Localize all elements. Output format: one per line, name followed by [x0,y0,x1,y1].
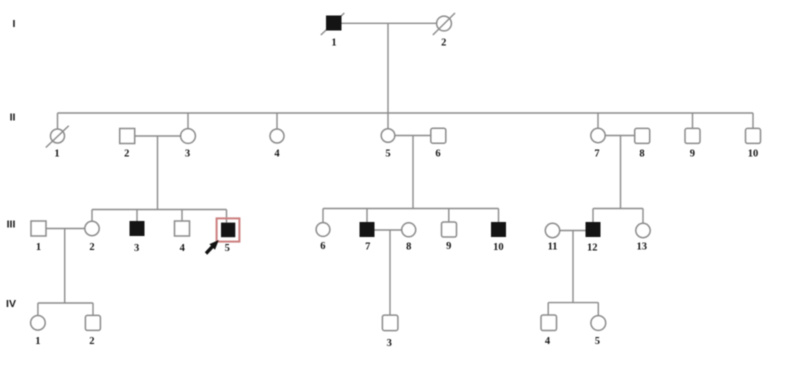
svg-text:11: 11 [548,242,558,253]
individual III-10 affected male [491,222,506,237]
svg-text:5: 5 [385,148,390,159]
individual III-7 affected male [360,222,375,237]
individual II-1 deceased female [46,126,69,148]
svg-text:2: 2 [89,336,94,347]
proband arrow [205,240,219,255]
svg-text:5: 5 [225,243,230,254]
drop line to IV-4 [547,303,549,315]
svg-text:6: 6 [435,148,440,159]
svg-text:4: 4 [274,149,280,160]
descent line from II-5/II-6 to middle III sibship [412,136,414,209]
right generation III sibship line [593,208,643,210]
marriage line III-11 to III-12 [560,230,586,232]
marriage line III-7 to III-8 [375,229,402,231]
individual II-9 male [685,128,700,143]
drop line to III-9 [448,209,450,223]
svg-text:9: 9 [690,149,695,160]
drop line to II-9 [692,113,694,129]
descent line from III-11/III-12 to right IV sibship [572,231,574,303]
svg-text:3: 3 [387,338,392,349]
svg-text:2: 2 [124,148,129,159]
individual III-1 male [31,221,46,236]
generation II sibship line [58,112,754,114]
drop line to IV-5 [597,303,599,316]
individual I-2 deceased female [433,13,455,35]
svg-text:10: 10 [493,242,504,253]
drop line to II-3 [187,113,189,129]
individual IV-5 female [591,316,606,331]
drop line to III-7 [366,209,368,223]
drop line to III-4 [181,210,183,222]
left generation IV sibship line [38,302,93,304]
drop line to II-7 [597,113,599,129]
marriage line II-7 to II-8 [605,135,634,137]
individual IV-4 male [541,315,557,331]
individual II-3 female [181,129,196,144]
proband box around III-5 [217,218,240,241]
individual II-6 male [431,128,446,143]
marriage line III-1 to III-2 [46,228,85,230]
drop line to IV-1 [37,303,39,316]
svg-text:2: 2 [441,38,446,49]
individual II-4 female [270,129,284,143]
individual I-1 affected deceased male [321,13,345,35]
drop line to III-13 [642,209,644,224]
drop line to III-2 [91,210,93,222]
individual III-3 affected male [130,221,145,236]
svg-text:1: 1 [35,336,40,347]
drop line to III-3 [136,210,138,222]
svg-text:13: 13 [636,241,647,252]
individual III-5 affected male proband [221,223,235,238]
descent line from III-1/III-2 to left IV sibship [64,229,66,304]
descent line from I couple to generation II sibship [387,23,389,113]
svg-text:2: 2 [89,242,94,253]
svg-text:8: 8 [406,241,411,252]
drop line to II-4 [276,113,278,129]
svg-text:1: 1 [331,38,336,49]
descent line from II-2/II-3 to left III sibship [157,136,159,210]
svg-text:4: 4 [545,336,551,347]
drop line to IV-2 [92,303,94,315]
svg-text:4: 4 [180,243,186,254]
svg-text:III: III [7,219,16,231]
descent line from III-7/III-8 to IV-3 [389,230,391,315]
svg-text:12: 12 [587,243,598,254]
svg-text:I: I [13,18,16,30]
individual III-2 female [85,221,99,235]
svg-text:7: 7 [365,241,370,252]
svg-text:9: 9 [446,241,451,252]
right generation IV sibship line [548,302,598,304]
svg-text:IV: IV [6,298,16,310]
individual III-9 male [442,222,457,237]
individual II-5 female [381,129,395,143]
drop line to III-10 [498,209,500,223]
drop line to II-10 [752,113,754,129]
drop line to III-5 [226,210,228,223]
svg-text:6: 6 [320,241,325,252]
individual III-11 female [545,223,559,237]
individual II-7 female [591,128,605,142]
individual III-6 female [316,223,330,237]
drop line to III-12 [592,209,594,223]
individual IV-2 male [85,315,100,330]
individual III-4 male [175,221,190,236]
individual IV-3 male [382,315,398,331]
individual II-8 male [635,128,650,143]
svg-text:1: 1 [36,242,41,253]
individual III-13 female [636,223,650,237]
middle generation III sibship line [323,208,499,210]
marriage line II-2 to II-3 [135,135,181,137]
drop line to II-1 [57,113,59,129]
marriage line I-1 to I-2 [341,22,437,24]
marriage line II-5 to II-6 [395,135,431,137]
individual III-12 affected male [586,222,601,237]
individual II-2 male [120,129,135,144]
individual IV-1 female [31,316,46,331]
drop line to II-5 [387,113,389,129]
svg-text:II: II [10,112,16,124]
left generation III sibship line [92,209,227,211]
svg-text:8: 8 [639,148,644,159]
svg-text:1: 1 [54,149,59,160]
individual III-8 female [402,223,416,237]
individual II-10 male [746,128,761,143]
svg-text:7: 7 [594,148,599,159]
svg-text:10: 10 [748,149,759,160]
svg-text:3: 3 [185,149,190,160]
svg-text:5: 5 [595,336,600,347]
drop line to III-6 [322,209,324,223]
svg-text:3: 3 [134,243,139,254]
descent line from II-7/II-8 to right III sibship [620,136,622,209]
